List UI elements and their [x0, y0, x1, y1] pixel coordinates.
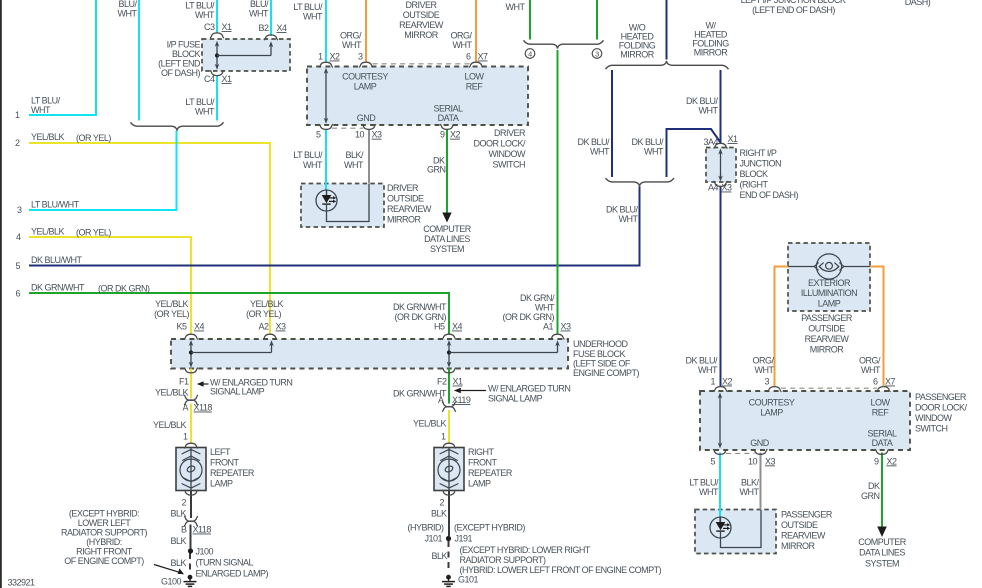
svg-text:(OR DK GRN): (OR DK GRN): [503, 312, 555, 322]
wire DK BLU/WHT elbow to X1: [667, 129, 721, 177]
svg-text:F1: F1: [179, 377, 189, 387]
svg-text:ORG/: ORG/: [450, 31, 472, 41]
circled 4: [525, 49, 535, 59]
wire DK GRN passenger switch pin 9: [881, 453, 883, 529]
wire DK BLU/WHT A4 to passenger switch pin 1: [720, 186, 722, 387]
svg-text:MIRROR: MIRROR: [810, 345, 844, 355]
connector strip passenger X3 pins 5-10: [726, 452, 755, 454]
svg-text:G101: G101: [458, 575, 479, 585]
svg-text:YEL/BLK: YEL/BLK: [155, 388, 189, 398]
svg-text:X3: X3: [561, 322, 572, 332]
svg-text:WHT: WHT: [535, 303, 555, 313]
svg-text:DK BLU/WHT: DK BLU/WHT: [31, 255, 83, 265]
brace merging LT BLU/WHT wires (left): [131, 122, 224, 130]
svg-text:LT BLU/: LT BLU/: [293, 150, 323, 160]
svg-text:X3: X3: [722, 183, 733, 193]
label G101: [458, 575, 479, 585]
connector driver pin 10/X3: [362, 124, 376, 129]
connector F1/X1: [184, 368, 198, 373]
wire LT BLU/WHT into driver switch pin 1: [325, 0, 327, 63]
underhood fuse block box (left side of engine compt): [171, 339, 568, 369]
svg-text:DATA: DATA: [438, 113, 459, 123]
svg-text:C4: C4: [204, 74, 215, 84]
svg-text:X119: X119: [452, 395, 471, 405]
svg-text:OUTSIDE: OUTSIDE: [781, 520, 818, 530]
label B2 wire: [249, 0, 269, 19]
svg-text:LAMP: LAMP: [210, 479, 233, 489]
svg-text:LT BLU/: LT BLU/: [185, 97, 215, 107]
svg-text:OUTSIDE: OUTSIDE: [387, 194, 424, 204]
svg-text:6: 6: [15, 289, 20, 299]
svg-text:LAMP: LAMP: [760, 408, 783, 418]
svg-text:WHT: WHT: [303, 12, 323, 22]
svg-text:X2: X2: [722, 377, 733, 387]
svg-text:DK BLU/: DK BLU/: [577, 137, 610, 147]
svg-text:B: B: [181, 525, 187, 535]
svg-text:LAMP: LAMP: [818, 299, 841, 309]
connector passenger pin 6/X7: [877, 387, 891, 392]
wire BLK X118 to J100: [190, 525, 192, 550]
svg-text:DK GRN/: DK GRN/: [520, 293, 555, 303]
wire DK GRN/WHT brace to A1: [557, 50, 559, 335]
svg-text:MIRROR: MIRROR: [781, 541, 815, 551]
connector F2/X1: [442, 368, 456, 373]
arrowhead DK GRN to computer data lines (passenger): [877, 527, 887, 538]
svg-text:GND: GND: [357, 113, 377, 123]
exterior illumination lamp box: [788, 243, 870, 311]
svg-text:DK GRN/WHT: DK GRN/WHT: [31, 283, 85, 293]
label right lamp pin 2: [439, 498, 444, 508]
svg-text:X7: X7: [478, 52, 489, 62]
svg-text:YEL/BLK: YEL/BLK: [31, 227, 65, 237]
wire BLK/WHT passenger switch pin 10 to mirror: [760, 453, 762, 510]
connector B/X118: [184, 516, 198, 526]
svg-text:PASSENGER: PASSENGER: [781, 510, 833, 520]
right I/P junction block label: [740, 148, 799, 200]
svg-text:SIGNAL LAMP: SIGNAL LAMP: [488, 394, 543, 404]
svg-text:X1: X1: [453, 377, 464, 387]
svg-text:DRIVER: DRIVER: [494, 128, 526, 138]
wire BLK left lamp pin 2 to X118: [190, 491, 192, 518]
connector A/X118: [184, 395, 198, 405]
driver switch internal arrow: [324, 68, 329, 124]
computer data lines system label (passenger): [858, 537, 907, 569]
label F2 X1: [437, 377, 463, 387]
svg-text:BLK: BLK: [170, 509, 186, 519]
svg-text:RIGHT I/P: RIGHT I/P: [740, 148, 777, 158]
label top cyan wire 2: [118, 0, 138, 19]
left front repeater lamp label: [210, 447, 255, 489]
wire BLK dashed J100 to G100: [189, 553, 191, 572]
svg-text:ENLARGED LAMP): ENLARGED LAMP): [196, 569, 269, 579]
wire 2 YEL/BLK to A2: [29, 143, 270, 335]
svg-text:B2: B2: [258, 23, 269, 33]
svg-text:FUSE BLOCK: FUSE BLOCK: [573, 349, 626, 359]
svg-text:A2: A2: [258, 322, 269, 332]
label H5 X4: [434, 322, 463, 332]
wire 2 label: [31, 132, 111, 143]
svg-text:DK BLU/: DK BLU/: [685, 356, 718, 366]
svg-text:WHT: WHT: [698, 365, 718, 375]
svg-text:LT BLU/: LT BLU/: [185, 1, 215, 11]
svg-text:REF: REF: [466, 82, 484, 92]
svg-text:X1: X1: [222, 74, 233, 84]
connector driver pin 3: [359, 62, 373, 67]
svg-text:BLK: BLK: [431, 551, 447, 561]
wire DK BLU/WHT top into folding mirror brace: [666, 0, 668, 60]
wire DK GRN driver switch pin 9: [446, 129, 448, 214]
svg-text:WHT: WHT: [699, 487, 719, 497]
svg-text:332921: 332921: [8, 578, 36, 588]
svg-text:X4: X4: [194, 322, 205, 332]
svg-text:LOW: LOW: [464, 72, 484, 82]
svg-text:9: 9: [440, 130, 445, 140]
svg-text:SERIAL: SERIAL: [867, 429, 897, 439]
connector passenger pin 1/X2: [714, 387, 728, 392]
label K5 X4: [176, 322, 204, 332]
left front repeater lamp symbol: [180, 448, 202, 491]
svg-text:WHT: WHT: [590, 147, 610, 157]
svg-text:MIRROR: MIRROR: [694, 48, 728, 58]
connector A1/X3: [551, 334, 565, 339]
wire 4 YEL/BLK to K5: [29, 237, 191, 335]
label driver pin 1 wire: [293, 2, 323, 22]
svg-text:1: 1: [318, 52, 323, 62]
connector driver pin 5: [319, 124, 333, 129]
svg-text:1: 1: [441, 432, 446, 442]
svg-text:DRIVER: DRIVER: [387, 183, 419, 193]
svg-text:WHT: WHT: [344, 160, 364, 170]
label DK BLU/WHT passenger feed: [685, 356, 718, 376]
svg-text:(LEFT END OF DASH): (LEFT END OF DASH): [752, 5, 835, 15]
svg-text:C3: C3: [204, 22, 215, 32]
connector left lamp pin 2: [184, 490, 198, 495]
svg-text:WHT: WHT: [644, 147, 664, 157]
svg-text:A4: A4: [708, 183, 719, 193]
svg-text:4: 4: [16, 232, 21, 242]
driver switch pin row bottom: [316, 130, 461, 140]
svg-text:1: 1: [183, 432, 188, 442]
svg-text:X3: X3: [276, 322, 287, 332]
svg-text:LT BLU/: LT BLU/: [31, 96, 61, 106]
connector driver pin 6/X7: [469, 62, 483, 67]
left I/P junction block label (cut at top): [741, 0, 846, 15]
connector C3/X1: [210, 33, 224, 38]
svg-text:F2: F2: [437, 377, 447, 387]
label WHT (cut, green wire): [506, 2, 526, 12]
svg-text:SWITCH: SWITCH: [915, 424, 948, 434]
svg-text:DK BLU/: DK BLU/: [686, 96, 719, 106]
svg-text:(HYBRID:: (HYBRID:: [86, 537, 122, 547]
passenger switch pin row bottom: [710, 456, 897, 466]
label left lamp pin 1: [183, 432, 188, 442]
svg-text:ORG/: ORG/: [859, 356, 881, 366]
svg-text:UNDERHOOD: UNDERHOOD: [573, 339, 629, 349]
svg-text:PASSENGER: PASSENGER: [915, 392, 967, 402]
label A2 X3: [258, 322, 286, 332]
label A X119: [438, 395, 471, 405]
label A1 X3: [543, 322, 571, 332]
svg-text:A1: A1: [543, 322, 554, 332]
svg-text:COURTESY: COURTESY: [749, 398, 795, 408]
svg-text:SWITCH: SWITCH: [493, 160, 526, 170]
passenger outside rearview mirror box: [695, 510, 776, 554]
svg-text:5: 5: [15, 261, 20, 271]
svg-text:LT BLU/WHT: LT BLU/WHT: [31, 200, 80, 210]
right front repeater lamp symbol: [438, 448, 460, 491]
connector passenger pin 5: [713, 449, 727, 454]
svg-text:X7: X7: [885, 377, 896, 387]
svg-text:X118: X118: [193, 525, 212, 535]
label DK GRN: [427, 156, 446, 175]
wire LT BLU/WHT passenger switch pin 5 to mirror: [719, 453, 721, 518]
exterior illumination lamp symbol: [788, 254, 870, 279]
svg-text:WHT: WHT: [195, 10, 215, 20]
label ORG/WHT passenger pin 3: [752, 356, 774, 376]
wire 5 DK BLU/WHT to folding-mirror brace: [29, 187, 640, 266]
connector strip passenger X7 pins 3-6: [781, 387, 877, 389]
label BLK/WHT passenger mirror: [740, 478, 760, 498]
svg-text:DATA LINES: DATA LINES: [424, 234, 470, 244]
svg-text:GRN: GRN: [861, 491, 880, 501]
svg-text:RIGHT: RIGHT: [468, 447, 495, 457]
svg-text:DK BLU/: DK BLU/: [631, 137, 664, 147]
svg-text:WHT: WHT: [619, 214, 639, 224]
svg-text:DK GRN/WHT: DK GRN/WHT: [393, 302, 447, 312]
ground G100: [184, 575, 197, 587]
note w/ enlarged turn signal lamp (left): [210, 378, 292, 397]
label BLK right 2: [431, 551, 447, 561]
wire LT BLU/WHT driver switch pin 5 to mirror: [325, 129, 327, 190]
label YEL/BLK left lamp: [153, 420, 187, 430]
svg-text:BLK: BLK: [170, 558, 186, 568]
connector B2/X4: [264, 35, 278, 40]
svg-text:ORG/: ORG/: [340, 31, 362, 41]
label J100: [196, 547, 214, 557]
svg-text:5: 5: [316, 130, 321, 140]
passenger switch internal labels: [749, 398, 897, 449]
wire BLK dashed J101 to G101: [448, 541, 450, 571]
passenger outside rearview mirror label (under lamp): [801, 313, 853, 355]
underhood fuse block internal circuit right: [447, 340, 560, 368]
passenger mirror LED lamp: [710, 510, 761, 548]
label F1: [179, 377, 189, 387]
connector strip driver X3 pins 5-10: [332, 127, 363, 129]
label DK GRN/WHT below F2: [393, 389, 447, 399]
label DK BLU/WHT w/ heated branch: [686, 96, 719, 116]
label BLK left 3: [170, 558, 186, 568]
junction J101/J191: [446, 536, 451, 541]
connector right lamp pin 2: [442, 490, 456, 495]
svg-text:4: 4: [528, 49, 532, 58]
svg-text:10: 10: [748, 456, 758, 466]
svg-text:BLK/: BLK/: [345, 150, 364, 160]
svg-text:YEL/BLK: YEL/BLK: [153, 420, 187, 430]
underhood fuse block internal circuit left: [189, 340, 274, 368]
exterior illumination lamp label: [801, 278, 857, 309]
passenger switch pin row top: [710, 377, 895, 387]
svg-text:LOWER LEFT: LOWER LEFT: [78, 518, 132, 528]
svg-text:(OR DK GRN): (OR DK GRN): [98, 284, 150, 294]
svg-text:X1: X1: [222, 22, 233, 32]
label G100: [161, 577, 182, 587]
driver switch internal labels: [342, 72, 484, 124]
svg-text:REF: REF: [872, 408, 890, 418]
svg-text:LT BLU/: LT BLU/: [293, 2, 323, 12]
svg-text:LAMP: LAMP: [468, 479, 491, 489]
svg-text:COURTESY: COURTESY: [342, 72, 388, 82]
part number: [8, 578, 36, 588]
arrow note w/ enlarged turn signal lamp (right): [454, 388, 486, 393]
svg-text:X3: X3: [372, 130, 383, 140]
svg-text:(HYBRID): (HYBRID): [408, 523, 445, 533]
wire 1 label: [31, 96, 61, 116]
svg-text:10: 10: [355, 130, 365, 140]
connector strip driver X7 pins 3-6: [373, 63, 470, 65]
svg-text:REARVIEW: REARVIEW: [781, 531, 826, 541]
svg-text:LEFT: LEFT: [210, 447, 231, 457]
connector right lamp pin 1: [442, 443, 456, 448]
connector 3A4/X1: [714, 143, 728, 148]
wire DK GRN/WHT top right into brace: [596, 0, 598, 40]
svg-text:9: 9: [874, 456, 879, 466]
svg-text:MIRROR: MIRROR: [387, 215, 421, 225]
svg-text:RADIATOR SUPPORT): RADIATOR SUPPORT): [460, 555, 547, 565]
right I/P junction block box (right end of dash): [706, 148, 736, 183]
label YEL/BLK above K5: [154, 299, 189, 319]
svg-text:OF ENGINE COMPT): OF ENGINE COMPT): [64, 556, 144, 566]
label C4 wire: [185, 97, 215, 117]
svg-text:X4: X4: [452, 322, 463, 332]
svg-text:SYSTEM: SYSTEM: [430, 244, 464, 254]
wire 6 label: [31, 283, 150, 294]
wire number labels: [15, 110, 22, 299]
svg-text:SERIAL: SERIAL: [433, 104, 463, 114]
svg-text:DRIVER: DRIVER: [405, 0, 437, 10]
svg-text:J191: J191: [455, 534, 473, 544]
w/ heated folding mirror label: [692, 21, 729, 58]
label DK GRN passenger: [861, 481, 880, 501]
label YEL/BLK above A2: [246, 299, 283, 319]
svg-text:GND: GND: [750, 438, 770, 448]
svg-text:DK BLU/: DK BLU/: [606, 205, 639, 215]
label BLK left: [170, 509, 186, 519]
svg-text:DATA LINES: DATA LINES: [859, 548, 905, 558]
svg-text:BLK/: BLK/: [741, 478, 760, 488]
svg-text:A: A: [182, 403, 188, 413]
svg-text:3: 3: [358, 52, 363, 62]
svg-text:6: 6: [466, 52, 471, 62]
label B2 X4: [258, 23, 287, 33]
brace splitting DK BLU/WHT to w/o and w/ heated folding mirror: [606, 61, 729, 69]
label ORG/WHT driver pin 6: [450, 31, 472, 51]
svg-text:COMPUTER: COMPUTER: [423, 224, 472, 234]
wire 3 LT BLU/WHT from brace: [29, 131, 177, 211]
wire DK GRN/WHT F2 to X119: [448, 369, 450, 404]
svg-text:BLK: BLK: [431, 509, 447, 519]
svg-text:EXTERIOR: EXTERIOR: [808, 278, 851, 288]
wire BLK/WHT driver switch pin 10 to mirror: [368, 129, 370, 184]
svg-text:X2: X2: [887, 456, 898, 466]
svg-text:WHT: WHT: [31, 105, 51, 115]
svg-text:2: 2: [181, 498, 186, 508]
w/o heated folding mirror label: [619, 23, 656, 60]
svg-text:WINDOW: WINDOW: [489, 149, 526, 159]
svg-text:REARVIEW: REARVIEW: [399, 20, 444, 30]
label YEL/BLK below F1: [155, 388, 189, 398]
right I/P junction block internal arrow: [718, 149, 723, 182]
svg-text:WHT: WHT: [118, 9, 138, 19]
svg-text:DOOR LOCK/: DOOR LOCK/: [915, 403, 968, 413]
connector passenger pin 10/X3: [754, 449, 768, 454]
label ORG/WHT driver pin 3: [340, 31, 362, 51]
svg-text:YEL/BLK: YEL/BLK: [31, 132, 65, 142]
svg-text:H5: H5: [434, 322, 445, 332]
svg-text:OUTSIDE: OUTSIDE: [403, 10, 440, 20]
left front repeater lamp box: [176, 448, 206, 491]
svg-text:WHT: WHT: [342, 40, 362, 50]
connector C4/X1: [210, 71, 224, 76]
wire 6 DK GRN/WHT to H5: [29, 293, 449, 335]
svg-text:RADIATOR SUPPORT): RADIATOR SUPPORT): [61, 528, 148, 538]
svg-text:YEL/BLK: YEL/BLK: [413, 419, 447, 429]
svg-text:WHT: WHT: [755, 365, 775, 375]
label J101 J191: [424, 534, 472, 544]
wire 1 LT BLU/WHT: [29, 0, 96, 115]
svg-text:WINDOW: WINDOW: [915, 413, 952, 423]
passenger door lock/window switch box: [700, 391, 910, 450]
label DK GRN/WHT above H5: [393, 302, 447, 322]
connector passenger pin 9/X2: [875, 449, 889, 454]
driver mirror LED lamp: [316, 184, 369, 222]
svg-text:(HYBRID: LOWER LEFT FRONT OF E: (HYBRID: LOWER LEFT FRONT OF ENGINE COMP…: [460, 565, 662, 575]
svg-text:(LEFT END: (LEFT END: [158, 59, 201, 69]
svg-text:REARVIEW: REARVIEW: [387, 204, 432, 214]
wire 4 label: [31, 227, 111, 238]
label LT BLU/WHT passenger mirror: [689, 478, 719, 498]
label (HYBRID) / (EXCEPT HYBRID): [408, 523, 526, 533]
svg-text:(TURN SIGNAL: (TURN SIGNAL: [196, 558, 254, 568]
label A4 X3: [708, 183, 732, 193]
svg-text:3A4: 3A4: [703, 137, 718, 147]
wire ORG/WHT into driver switch pin 3: [365, 0, 367, 63]
I/P fuse block box (left end of dash): [202, 39, 290, 71]
svg-text:DK: DK: [868, 481, 880, 491]
svg-text:ORG/: ORG/: [752, 356, 774, 366]
svg-text:LAMP: LAMP: [354, 82, 377, 92]
connector passenger pin 3: [768, 387, 782, 392]
svg-text:END OF DASH): END OF DASH): [740, 190, 799, 200]
label C3 X1: [204, 22, 232, 32]
svg-text:WHT: WHT: [861, 365, 881, 375]
svg-text:(EXCEPT HYBRID: LOWER RIGHT: (EXCEPT HYBRID: LOWER RIGHT: [460, 545, 591, 555]
svg-text:BLOCK: BLOCK: [740, 169, 769, 179]
svg-text:(EXCEPT HYBRID:: (EXCEPT HYBRID:: [69, 509, 139, 519]
ground G101: [442, 575, 455, 587]
wire LT BLU/WHT into B2: [270, 0, 272, 36]
label BLK left 2: [170, 536, 186, 546]
wire ORG/WHT into driver switch pin 6: [475, 0, 477, 63]
svg-text:FRONT: FRONT: [468, 458, 497, 468]
svg-text:YEL/BLK: YEL/BLK: [250, 299, 284, 309]
label ORG/WHT passenger pin 6: [859, 356, 881, 376]
driver outside rearview mirror label (top): [399, 0, 444, 40]
arrowhead DK GRN to computer data lines: [442, 213, 451, 223]
svg-text:DASH): DASH): [905, 0, 931, 7]
svg-text:MIRROR: MIRROR: [404, 30, 438, 40]
svg-text:PASSENGER: PASSENGER: [801, 313, 853, 323]
label C4 X1: [204, 74, 232, 84]
